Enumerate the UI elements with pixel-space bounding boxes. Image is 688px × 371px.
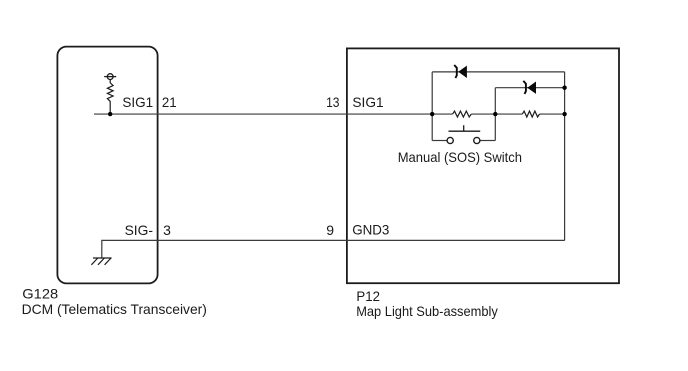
svg-text:SIG1: SIG1 xyxy=(352,94,383,110)
pin number 13 xyxy=(326,94,340,110)
node junction left branch on SIG1 xyxy=(430,112,434,116)
wire top rail (diode D1 branch) xyxy=(432,71,565,73)
label SIG1 (DCM pin name) xyxy=(122,94,153,110)
svg-text:21: 21 xyxy=(162,94,177,110)
label Manual (SOS) Switch xyxy=(398,149,522,165)
node junction rail2 right end xyxy=(562,86,566,90)
label GND3 (P12 pin name) xyxy=(352,222,389,238)
terminal circle (battery feed inside DCM) xyxy=(104,74,116,80)
wire switch bottom left segment xyxy=(432,140,447,142)
wire vertical middle branch xyxy=(494,88,496,141)
pin number 21 xyxy=(162,94,177,110)
svg-text:13: 13 xyxy=(326,94,340,110)
svg-text:G128: G128 xyxy=(22,286,58,302)
pin number 3 xyxy=(163,222,171,238)
label Map Light Sub-assembly xyxy=(356,303,498,319)
wire SIG1 main (pin 21 to pin 13 net) xyxy=(94,113,565,115)
label DCM (Telematics Transceiver) xyxy=(22,301,207,317)
label SIG1 (P12 pin name) xyxy=(352,94,383,110)
wire second rail (diode D2 branch) xyxy=(495,87,564,89)
label G128 xyxy=(22,286,58,302)
switch contact circle left xyxy=(447,137,453,143)
wire vertical left branch of SOS switch circuit xyxy=(431,72,433,141)
label SIG- (DCM pin name) xyxy=(125,222,154,238)
resistor (pull-up inside DCM) xyxy=(107,80,113,115)
pin number 9 xyxy=(326,222,334,238)
resistor R1 (left, in series on SIG1) xyxy=(453,111,472,117)
svg-text:SIG-: SIG- xyxy=(125,222,154,238)
svg-text:Manual (SOS) Switch: Manual (SOS) Switch xyxy=(398,149,522,165)
node junction at pull-up / SIG1 wire xyxy=(108,112,112,116)
connector box P12 (Map Light Sub-assembly) xyxy=(347,48,619,283)
wire right vertical (to GND3) xyxy=(564,72,566,241)
switch contact circle right xyxy=(474,137,480,143)
wire SIG-/GND3 (ground return net) xyxy=(102,240,565,258)
svg-text:GND3: GND3 xyxy=(352,222,389,238)
label P12 xyxy=(356,288,380,304)
connector box G128 (DCM) xyxy=(57,47,157,284)
diode D2 (zener, cathode left) xyxy=(523,81,536,94)
diode D1 (zener, cathode left) xyxy=(454,65,467,78)
node junction middle branch on SIG1 xyxy=(493,112,497,116)
ground (chassis ground inside DCM) xyxy=(91,258,111,265)
node junction right branch on SIG1 xyxy=(562,112,566,116)
svg-text:9: 9 xyxy=(326,222,334,238)
switch actuator bar (push button) xyxy=(449,125,481,131)
resistor R2 (right, in series on SIG1) xyxy=(522,111,539,117)
wire switch bottom right segment xyxy=(480,140,495,142)
svg-text:3: 3 xyxy=(163,222,171,238)
svg-text:P12: P12 xyxy=(356,288,380,304)
svg-text:DCM (Telematics Transceiver): DCM (Telematics Transceiver) xyxy=(22,301,207,317)
svg-text:SIG1: SIG1 xyxy=(122,94,153,110)
svg-text:Map Light Sub-assembly: Map Light Sub-assembly xyxy=(356,303,498,319)
